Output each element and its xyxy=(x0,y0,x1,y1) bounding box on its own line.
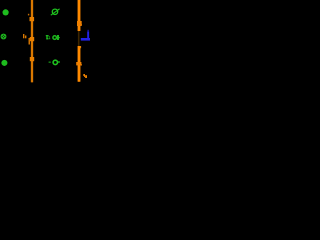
bus B1 horizontal segment (blue) xyxy=(81,38,90,41)
wire W2 lower bright segment xyxy=(77,46,81,82)
junction J2 on wire W1 xyxy=(30,37,34,41)
net label glyph | xyxy=(57,35,60,40)
pin P3 (inverted pin circle with slash, top-middle) xyxy=(51,9,60,15)
net label text "L60" (green, tiny) xyxy=(46,35,50,39)
pin P2 (green filled pad, bottom-left) xyxy=(1,60,7,66)
junction J3 on wire W1 xyxy=(30,57,34,61)
junction J5 on wire W2 xyxy=(76,62,81,65)
junction J1 on wire W1 xyxy=(30,17,35,21)
no-connect marker NC1 (circle with X) xyxy=(1,34,6,39)
label glyphs left of junction J2 xyxy=(23,34,26,38)
wire stub below junction J2 xyxy=(29,38,31,45)
wire W1 (left vertical net) xyxy=(31,0,33,82)
junction J4 on wire W2 xyxy=(77,21,82,26)
net label glyph O xyxy=(53,36,57,40)
pin P4 (pin circle with stub, mid-bottom) xyxy=(49,60,60,64)
wire W2 (right vertical net, upper bright segment) xyxy=(77,0,80,31)
pin P1 (green filled pad, top-left) xyxy=(3,9,9,15)
label glyph (orange dot) left of junction J1 xyxy=(28,14,29,16)
bus B1 vertical stub (blue) xyxy=(87,30,89,39)
reference label glyphs (orange, right-bottom) xyxy=(83,74,87,78)
wire W2 dim (highlighted-off) middle segment xyxy=(78,31,80,46)
